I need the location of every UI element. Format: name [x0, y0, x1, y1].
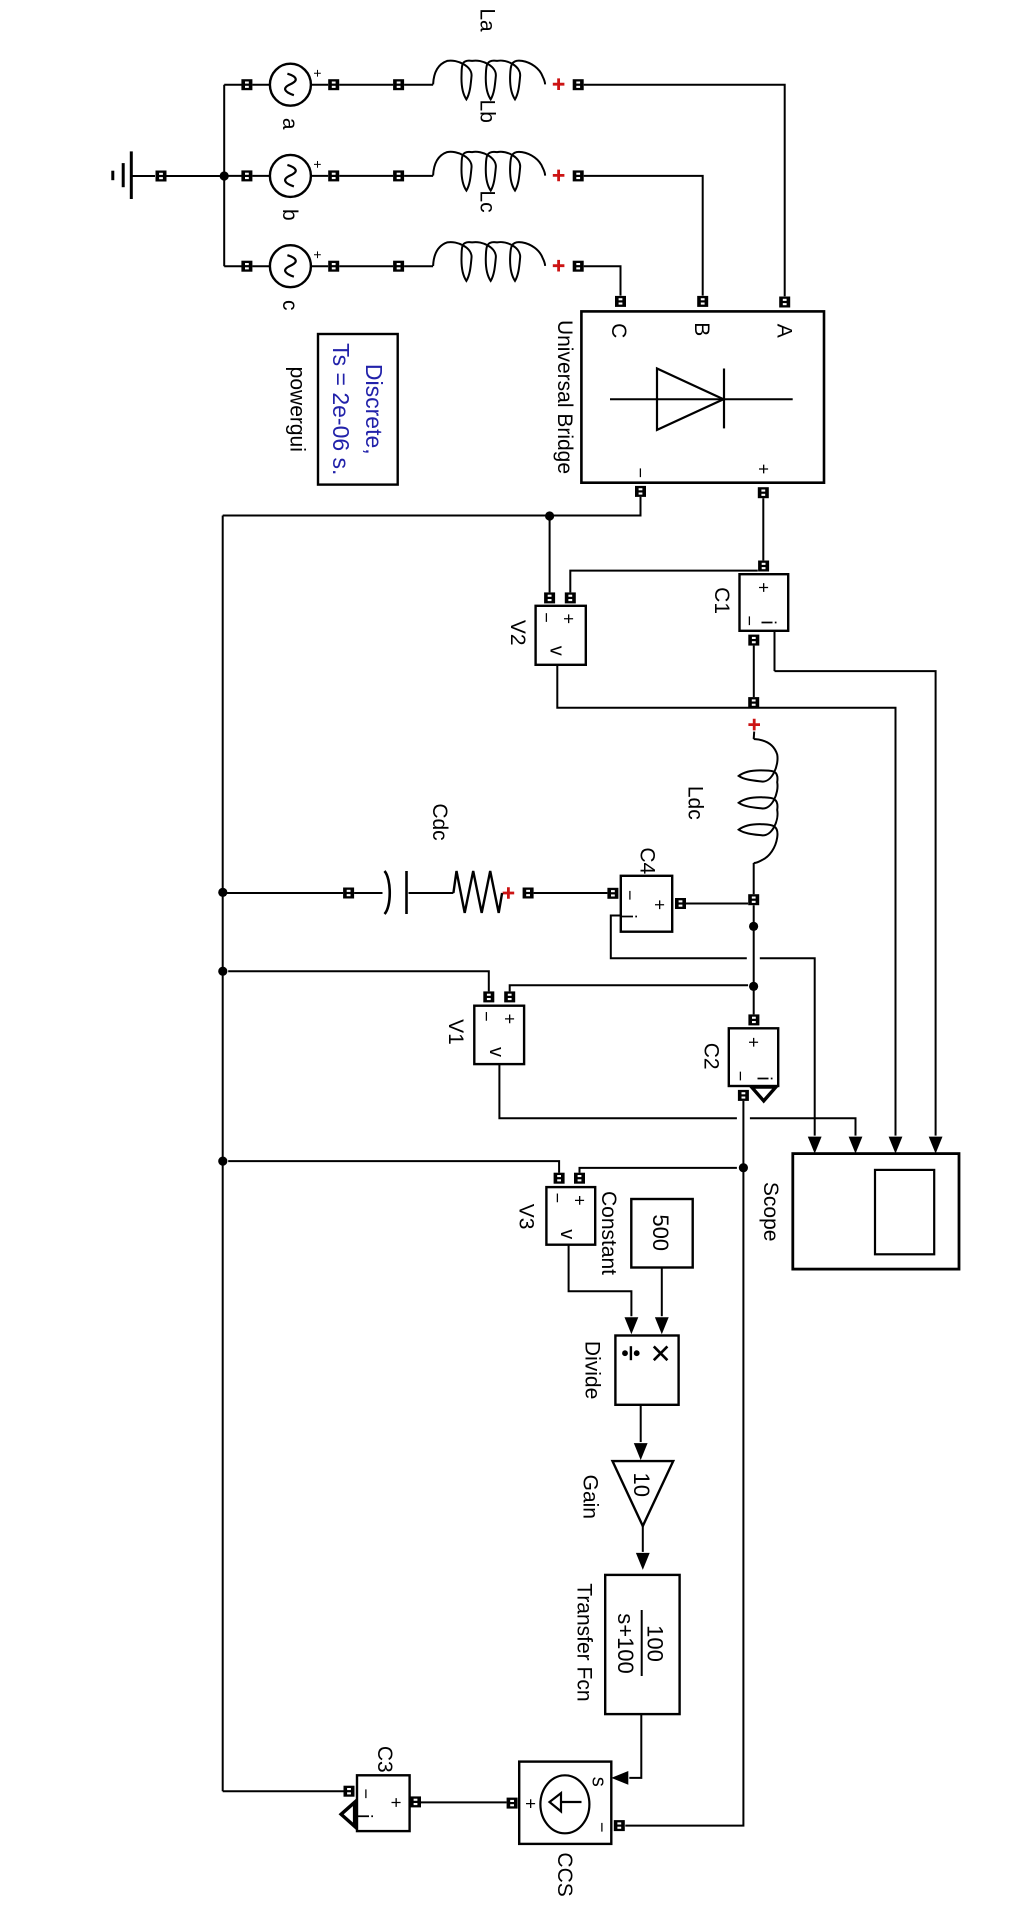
wire Ldc to C2 — [753, 905, 755, 1014]
svg-text:+: + — [754, 582, 774, 593]
wire V2 v to scope — [557, 665, 895, 1136]
wire bus to source a — [224, 84, 241, 86]
port bridge - — [635, 486, 646, 497]
svg-text:−: − — [592, 1822, 612, 1833]
wire V1 + to Ldc node — [510, 985, 748, 991]
port inductor Lc lower — [393, 261, 404, 272]
junction DC- / V2- node — [545, 511, 554, 520]
svg-text:500: 500 — [648, 1214, 673, 1251]
wire CCS + to C3 + — [421, 1801, 507, 1803]
svg-text:C2: C2 — [699, 1043, 722, 1070]
junction Ldc node 2 (V1+) — [749, 982, 758, 991]
svg-text:A: A — [773, 324, 796, 338]
port V3 - — [554, 1173, 565, 1184]
wire Cdc to DC bus — [224, 892, 343, 894]
svg-text:Gain: Gain — [578, 1475, 601, 1519]
powergui block — [318, 334, 398, 485]
svg-text:−: − — [730, 1071, 750, 1082]
current measurement C2 — [729, 1028, 778, 1086]
inductor coil Lc — [433, 242, 545, 281]
constant block 500 — [631, 1199, 692, 1268]
port source a - — [241, 79, 252, 90]
port ground — [156, 171, 167, 182]
voltage measurement V1 — [474, 1006, 524, 1064]
wire C4 i to scope — [611, 916, 815, 1136]
junction Ldc node 1 — [749, 922, 758, 931]
svg-text:s: s — [588, 1777, 610, 1787]
wire source b lower lead — [252, 175, 269, 177]
polarity mark Ldc (red +) — [748, 719, 760, 731]
polarity mark La (red +) — [553, 78, 565, 90]
port inductor Lc upper — [573, 261, 584, 272]
port Cdc top — [523, 888, 534, 899]
AC voltage source b — [270, 155, 311, 197]
wire V3 - to DC bus — [228, 1161, 559, 1173]
wire inductor Lc lower lead — [404, 265, 433, 267]
svg-text:+: + — [310, 251, 326, 259]
svg-text:a: a — [278, 118, 301, 130]
svg-text:−: − — [739, 616, 759, 627]
svg-text:s+100: s+100 — [613, 1613, 638, 1674]
svg-text:V3: V3 — [515, 1204, 538, 1230]
port bridge A — [779, 297, 790, 308]
ground — [113, 151, 155, 199]
port Ldc right — [748, 894, 759, 905]
wire source a to inductor La — [339, 84, 393, 86]
wire source b to inductor Lb — [339, 175, 393, 177]
wire Ldc node to C4 + — [686, 903, 748, 905]
wire V1 v to scope — [499, 1064, 855, 1136]
wire ground to AC bus — [167, 175, 225, 177]
svg-text:V1: V1 — [444, 1019, 467, 1045]
wire V1 - to DC bus — [228, 971, 489, 991]
wire C4 - to Cdc — [534, 892, 608, 894]
svg-text:Ts = 2e-06 s.: Ts = 2e-06 s. — [328, 343, 354, 475]
universal bridge block — [581, 311, 824, 482]
svg-text:+: + — [500, 1014, 520, 1025]
port bridge C — [615, 296, 626, 307]
port source c + — [328, 261, 339, 272]
port inductor Lb upper — [573, 170, 584, 181]
wire source a lower lead — [252, 84, 269, 86]
svg-text:+: + — [570, 1195, 590, 1206]
wire Cdc R to C plate — [409, 892, 454, 894]
junction bus/Cdc — [218, 888, 227, 897]
arrowhead scope in 4 — [808, 1137, 822, 1154]
scope block — [793, 1154, 959, 1270]
arrowhead scope in 3 — [849, 1137, 863, 1154]
current measurement C4 — [621, 876, 672, 932]
wire V3 + to C2-/CCS node — [580, 1168, 737, 1173]
svg-text:Cdc: Cdc — [428, 803, 451, 840]
svg-text:C3: C3 — [373, 1746, 396, 1773]
wire source c upper lead — [312, 265, 329, 267]
wire source b upper lead — [312, 175, 329, 177]
voltage measurement V2 — [536, 606, 586, 665]
port C3 - — [344, 1786, 355, 1797]
arrowhead scope in 1 — [929, 1137, 943, 1154]
svg-text:+: + — [521, 1798, 541, 1809]
port C2 - — [738, 1090, 749, 1101]
port CCS + — [507, 1798, 518, 1809]
wire V2 - to DC- rail — [549, 516, 551, 592]
inductor coil La — [433, 61, 545, 100]
svg-text:C: C — [607, 323, 630, 338]
wire C1 i to scope — [775, 671, 936, 1136]
arrowhead into CCS s — [611, 1771, 628, 1785]
wire C1 i out — [774, 631, 776, 671]
svg-text:i: i — [753, 1076, 775, 1080]
svg-text:Scope: Scope — [759, 1182, 782, 1242]
svg-text:−: − — [477, 1011, 497, 1022]
svg-text:−: − — [620, 890, 640, 901]
AC voltage source c — [270, 245, 311, 287]
svg-text:Divide: Divide — [581, 1341, 604, 1399]
inductor coil Lb — [433, 152, 545, 191]
port source b + — [328, 170, 339, 181]
inductor coil Ldc — [739, 739, 778, 863]
wire C1 - to Ldc — [753, 646, 755, 698]
svg-text:V2: V2 — [506, 620, 529, 646]
svg-text:+: + — [753, 464, 773, 475]
svg-text:C4: C4 — [636, 847, 659, 874]
port V3 + — [574, 1173, 585, 1184]
port inductor La lower — [393, 79, 404, 90]
wire Cdc lower lead — [354, 892, 382, 894]
arrowhead into divide 2 — [655, 1317, 669, 1334]
wire phase c to bridge — [584, 266, 621, 295]
wire phase b to bridge — [584, 176, 703, 296]
transfer fcn block — [605, 1575, 679, 1714]
junction C2- / V3+ node — [739, 1163, 748, 1172]
port CCS - — [614, 1820, 625, 1831]
wire AC neutral bus — [223, 85, 225, 267]
wire V2 + to DC+ node — [570, 571, 758, 593]
svg-text:b: b — [278, 209, 301, 221]
wire DC return bus — [222, 516, 224, 1792]
wire divide to gain — [640, 1405, 642, 1442]
divide block — [615, 1336, 678, 1405]
port C2 + — [748, 1014, 759, 1025]
svg-text:CCS: CCS — [553, 1852, 576, 1896]
port source c - — [241, 261, 252, 272]
junction bus/V3- — [218, 1157, 227, 1166]
svg-text:powergui: powergui — [286, 367, 309, 452]
svg-text:100: 100 — [643, 1625, 668, 1662]
wire source c to inductor Lc — [339, 265, 393, 267]
svg-text:c: c — [278, 300, 301, 311]
port V1 + — [504, 991, 515, 1002]
svg-text:Discrete,: Discrete, — [361, 364, 387, 455]
svg-text:−: − — [537, 612, 557, 623]
wire bridge + to C1 — [762, 498, 764, 560]
svg-text:v: v — [485, 1047, 507, 1057]
wire bridge - to DC bus — [223, 497, 641, 516]
port source a + — [328, 79, 339, 90]
svg-text:+: + — [310, 160, 326, 168]
wire inductor Lb lower lead — [404, 175, 433, 177]
svg-text:v: v — [556, 1229, 578, 1239]
port V1 - — [483, 991, 494, 1002]
svg-text:−: − — [548, 1193, 568, 1204]
port Ldc left — [748, 697, 759, 708]
svg-text:C1: C1 — [710, 587, 733, 614]
gain block 10 — [613, 1461, 674, 1526]
wire V3 v to divide — [569, 1245, 632, 1317]
svg-text:v: v — [546, 646, 568, 656]
port C4 - — [607, 888, 618, 899]
svg-text:10: 10 — [629, 1472, 654, 1496]
svg-text:Ldc: Ldc — [684, 786, 707, 820]
port C1 + — [758, 561, 769, 572]
port inductor Lb lower — [393, 170, 404, 181]
wire C3 - to DC bus — [223, 1790, 344, 1792]
svg-text:i: i — [757, 620, 779, 624]
port V2 + — [565, 592, 576, 603]
port inductor La upper — [573, 79, 584, 90]
svg-text:Constant: Constant — [597, 1191, 620, 1275]
wire bus to source b — [224, 175, 241, 177]
polarity mark Lb (red +) — [553, 170, 565, 182]
voltage measurement V3 — [546, 1187, 595, 1245]
arrowhead into divide 1 — [625, 1317, 639, 1334]
svg-text:Universal Bridge: Universal Bridge — [553, 320, 576, 474]
wire inductor La lower lead — [404, 84, 433, 86]
capacitor Cdc — [385, 871, 407, 914]
wire source c lower lead — [252, 265, 269, 267]
AC voltage source a — [270, 64, 311, 106]
svg-text:+: + — [743, 1037, 763, 1048]
arrowhead into transfer fcn — [636, 1553, 650, 1570]
arrowhead into gain — [634, 1443, 648, 1460]
port V2 - — [544, 592, 555, 603]
polarity mark Lc (red +) — [553, 260, 565, 272]
C3 i unconnected arrow — [341, 1802, 355, 1826]
junction bus/V1- — [218, 967, 227, 976]
svg-text:Lb: Lb — [476, 100, 499, 123]
port Cdc bottom — [343, 888, 354, 899]
svg-text:+: + — [386, 1797, 406, 1808]
svg-text:+: + — [310, 69, 326, 77]
svg-text:−: − — [631, 467, 651, 478]
svg-text:+: + — [650, 899, 670, 910]
port C4 + — [675, 898, 686, 909]
wire phase a to bridge — [584, 85, 785, 297]
wire gain to transfer fcn — [642, 1526, 644, 1552]
wire C2 - to CCS - — [625, 1101, 743, 1826]
arrowhead scope in 2 — [889, 1137, 903, 1154]
svg-text:Transfer Fcn: Transfer Fcn — [573, 1583, 596, 1701]
port source b - — [241, 170, 252, 181]
svg-text:−: − — [356, 1789, 376, 1800]
wire source a upper lead — [312, 84, 329, 86]
port bridge + — [758, 487, 769, 498]
wire constant to divide — [661, 1268, 663, 1317]
wire Ldc lower lead — [753, 863, 755, 894]
current measurement C1 — [740, 574, 789, 631]
port C1 - — [748, 635, 759, 646]
current measurement C3 — [357, 1775, 410, 1831]
svg-text:B: B — [690, 322, 713, 336]
polarity mark Cdc (red +) — [503, 887, 515, 899]
svg-text:Lc: Lc — [476, 190, 499, 212]
wire Ldc + lead — [753, 732, 756, 739]
resistor (Cdc branch) — [453, 871, 502, 913]
controlled current source CCS — [519, 1762, 611, 1844]
svg-text:+: + — [559, 614, 579, 625]
port bridge B — [697, 296, 708, 307]
junction AC neutral — [220, 171, 229, 180]
wire transfer fcn to CCS s — [629, 1714, 641, 1778]
svg-text:La: La — [476, 8, 499, 32]
port C3 + — [410, 1796, 421, 1807]
wire bus to source c — [224, 265, 241, 267]
C2 i unconnected arrow — [752, 1087, 776, 1101]
